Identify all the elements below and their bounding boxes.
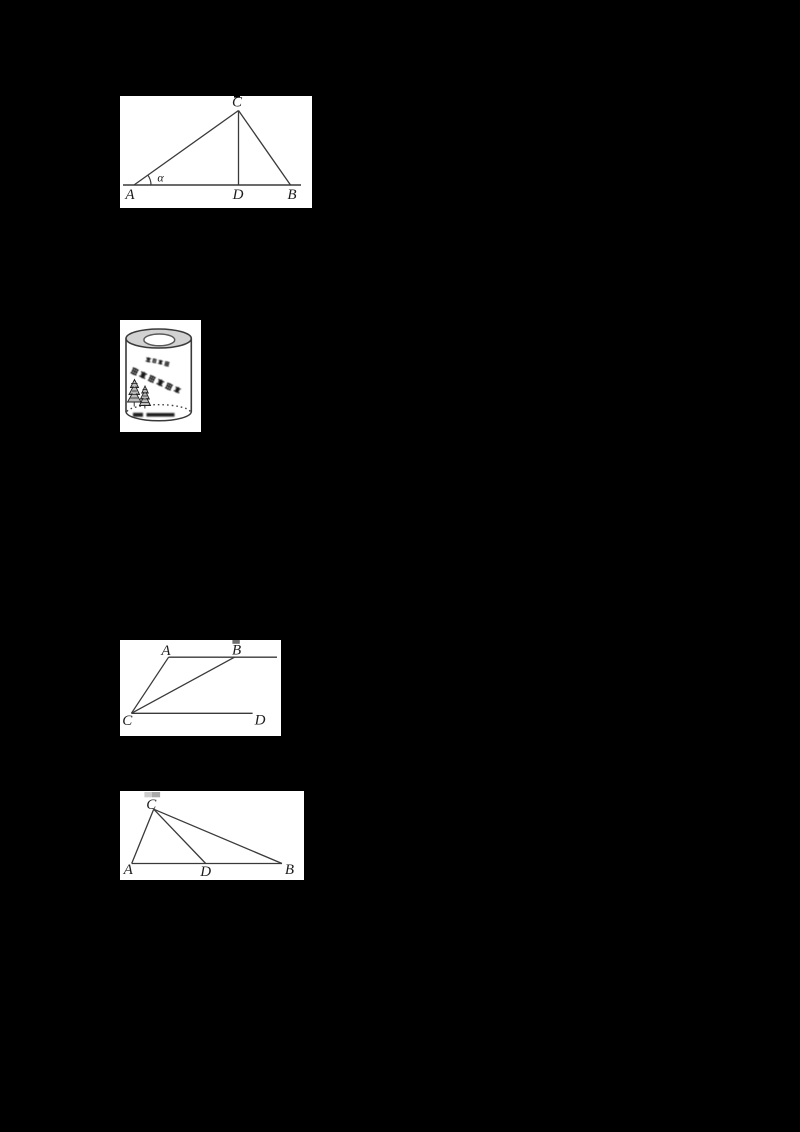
svg-text:B: B bbox=[284, 862, 293, 878]
smudge above C light part bbox=[144, 792, 152, 797]
figure 4: triangle ABC with cevian CD bbox=[120, 791, 305, 880]
svg-text:C: C bbox=[146, 797, 157, 813]
smudge above B bbox=[232, 640, 239, 644]
segment CB bbox=[131, 657, 234, 713]
small slanted label text row 1 bbox=[145, 356, 169, 366]
pine tree 2 bbox=[139, 386, 150, 409]
notch above C bbox=[234, 96, 240, 98]
side AC bbox=[131, 809, 153, 863]
svg-text:C: C bbox=[122, 713, 133, 729]
angle arc at A bbox=[148, 175, 151, 185]
large slanted label text row 2 bbox=[130, 366, 181, 393]
cylinder right side bbox=[190, 338, 192, 412]
svg-text:A: A bbox=[122, 862, 133, 878]
top hole bbox=[143, 334, 174, 346]
cevian CD bbox=[153, 809, 205, 863]
segment CA bbox=[131, 657, 168, 713]
svg-text:D: D bbox=[232, 187, 244, 203]
cylinder left side bbox=[125, 338, 127, 412]
baseline AB bbox=[131, 863, 281, 865]
bottom line CD bbox=[131, 712, 252, 714]
hidden bottom back arc dotted bbox=[127, 404, 190, 411]
bottom front arc bbox=[126, 411, 191, 420]
svg-text:C: C bbox=[232, 96, 243, 111]
baseline through A D B bbox=[123, 184, 301, 186]
smudge above C dark part bbox=[152, 792, 160, 797]
figure 1: triangle ABC with altitude CD and angle alpha bbox=[120, 96, 312, 208]
side CB bbox=[239, 111, 291, 186]
altitude CD bbox=[238, 111, 240, 186]
figure 3: parallel lines AB and CD with segments CA CB bbox=[120, 640, 281, 737]
svg-text:A: A bbox=[124, 187, 135, 203]
side CB bbox=[153, 809, 281, 863]
svg-text:A: A bbox=[160, 643, 171, 659]
side AC bbox=[134, 111, 239, 186]
svg-text:α: α bbox=[157, 171, 164, 185]
svg-text:D: D bbox=[253, 712, 265, 728]
svg-text:B: B bbox=[232, 642, 241, 658]
svg-text:B: B bbox=[287, 187, 296, 203]
bottom spec text bbox=[133, 412, 175, 416]
top line AB extended bbox=[168, 656, 276, 658]
svg-text:D: D bbox=[199, 864, 211, 880]
figure 2: cylinder paper roll bbox=[120, 320, 201, 433]
pine tree 1 bbox=[127, 379, 141, 406]
top ellipse bbox=[126, 329, 191, 348]
